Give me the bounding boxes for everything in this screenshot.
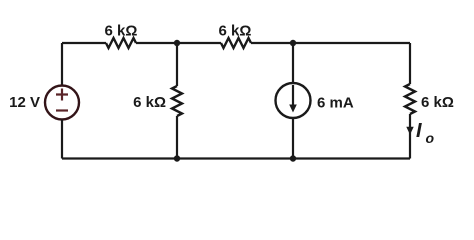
voltage source minus sign [56, 109, 68, 111]
resistor R2 6 kOhm top-right zigzag [221, 38, 251, 48]
svg-text:6 mA: 6 mA [317, 95, 354, 112]
wire current-source branch lower [292, 118, 294, 159]
wire right branch lower [409, 114, 411, 159]
wire top-left segment [62, 42, 106, 44]
wire middle branch lower [176, 116, 178, 159]
resistor R3 6 kOhm middle vertical zigzag [172, 86, 182, 116]
svg-text:I: I [416, 120, 422, 142]
wire top-middle segment [136, 42, 221, 44]
wire right branch upper [409, 43, 411, 84]
svg-text:6 kΩ: 6 kΩ [105, 23, 138, 40]
voltage source plus sign [56, 89, 68, 101]
wire bottom [62, 157, 410, 159]
svg-text:6 kΩ: 6 kΩ [421, 94, 454, 111]
wire left branch upper [61, 43, 63, 86]
voltage source V1 circle [45, 86, 79, 120]
svg-text:6 kΩ: 6 kΩ [219, 23, 252, 40]
wire middle branch upper [176, 43, 178, 86]
node junction dot bottom current-source [290, 155, 296, 161]
node junction dot bottom middle [174, 155, 180, 161]
wire current-source branch upper [292, 43, 294, 83]
wire top-right segment [251, 42, 410, 44]
current source I1 circle [276, 83, 311, 118]
node junction dot top middle [174, 40, 180, 46]
resistor R1 6 kOhm top-left zigzag [106, 38, 136, 48]
svg-text:o: o [426, 130, 435, 146]
current source arrow [292, 85, 294, 106]
node junction dot top current-source [290, 40, 296, 46]
resistor R4 6 kOhm right vertical zigzag [405, 84, 415, 114]
svg-text:6 kΩ: 6 kΩ [133, 94, 166, 111]
current Io arrowhead [406, 127, 413, 135]
wire left branch lower [61, 120, 63, 159]
svg-text:12 V: 12 V [9, 94, 40, 111]
